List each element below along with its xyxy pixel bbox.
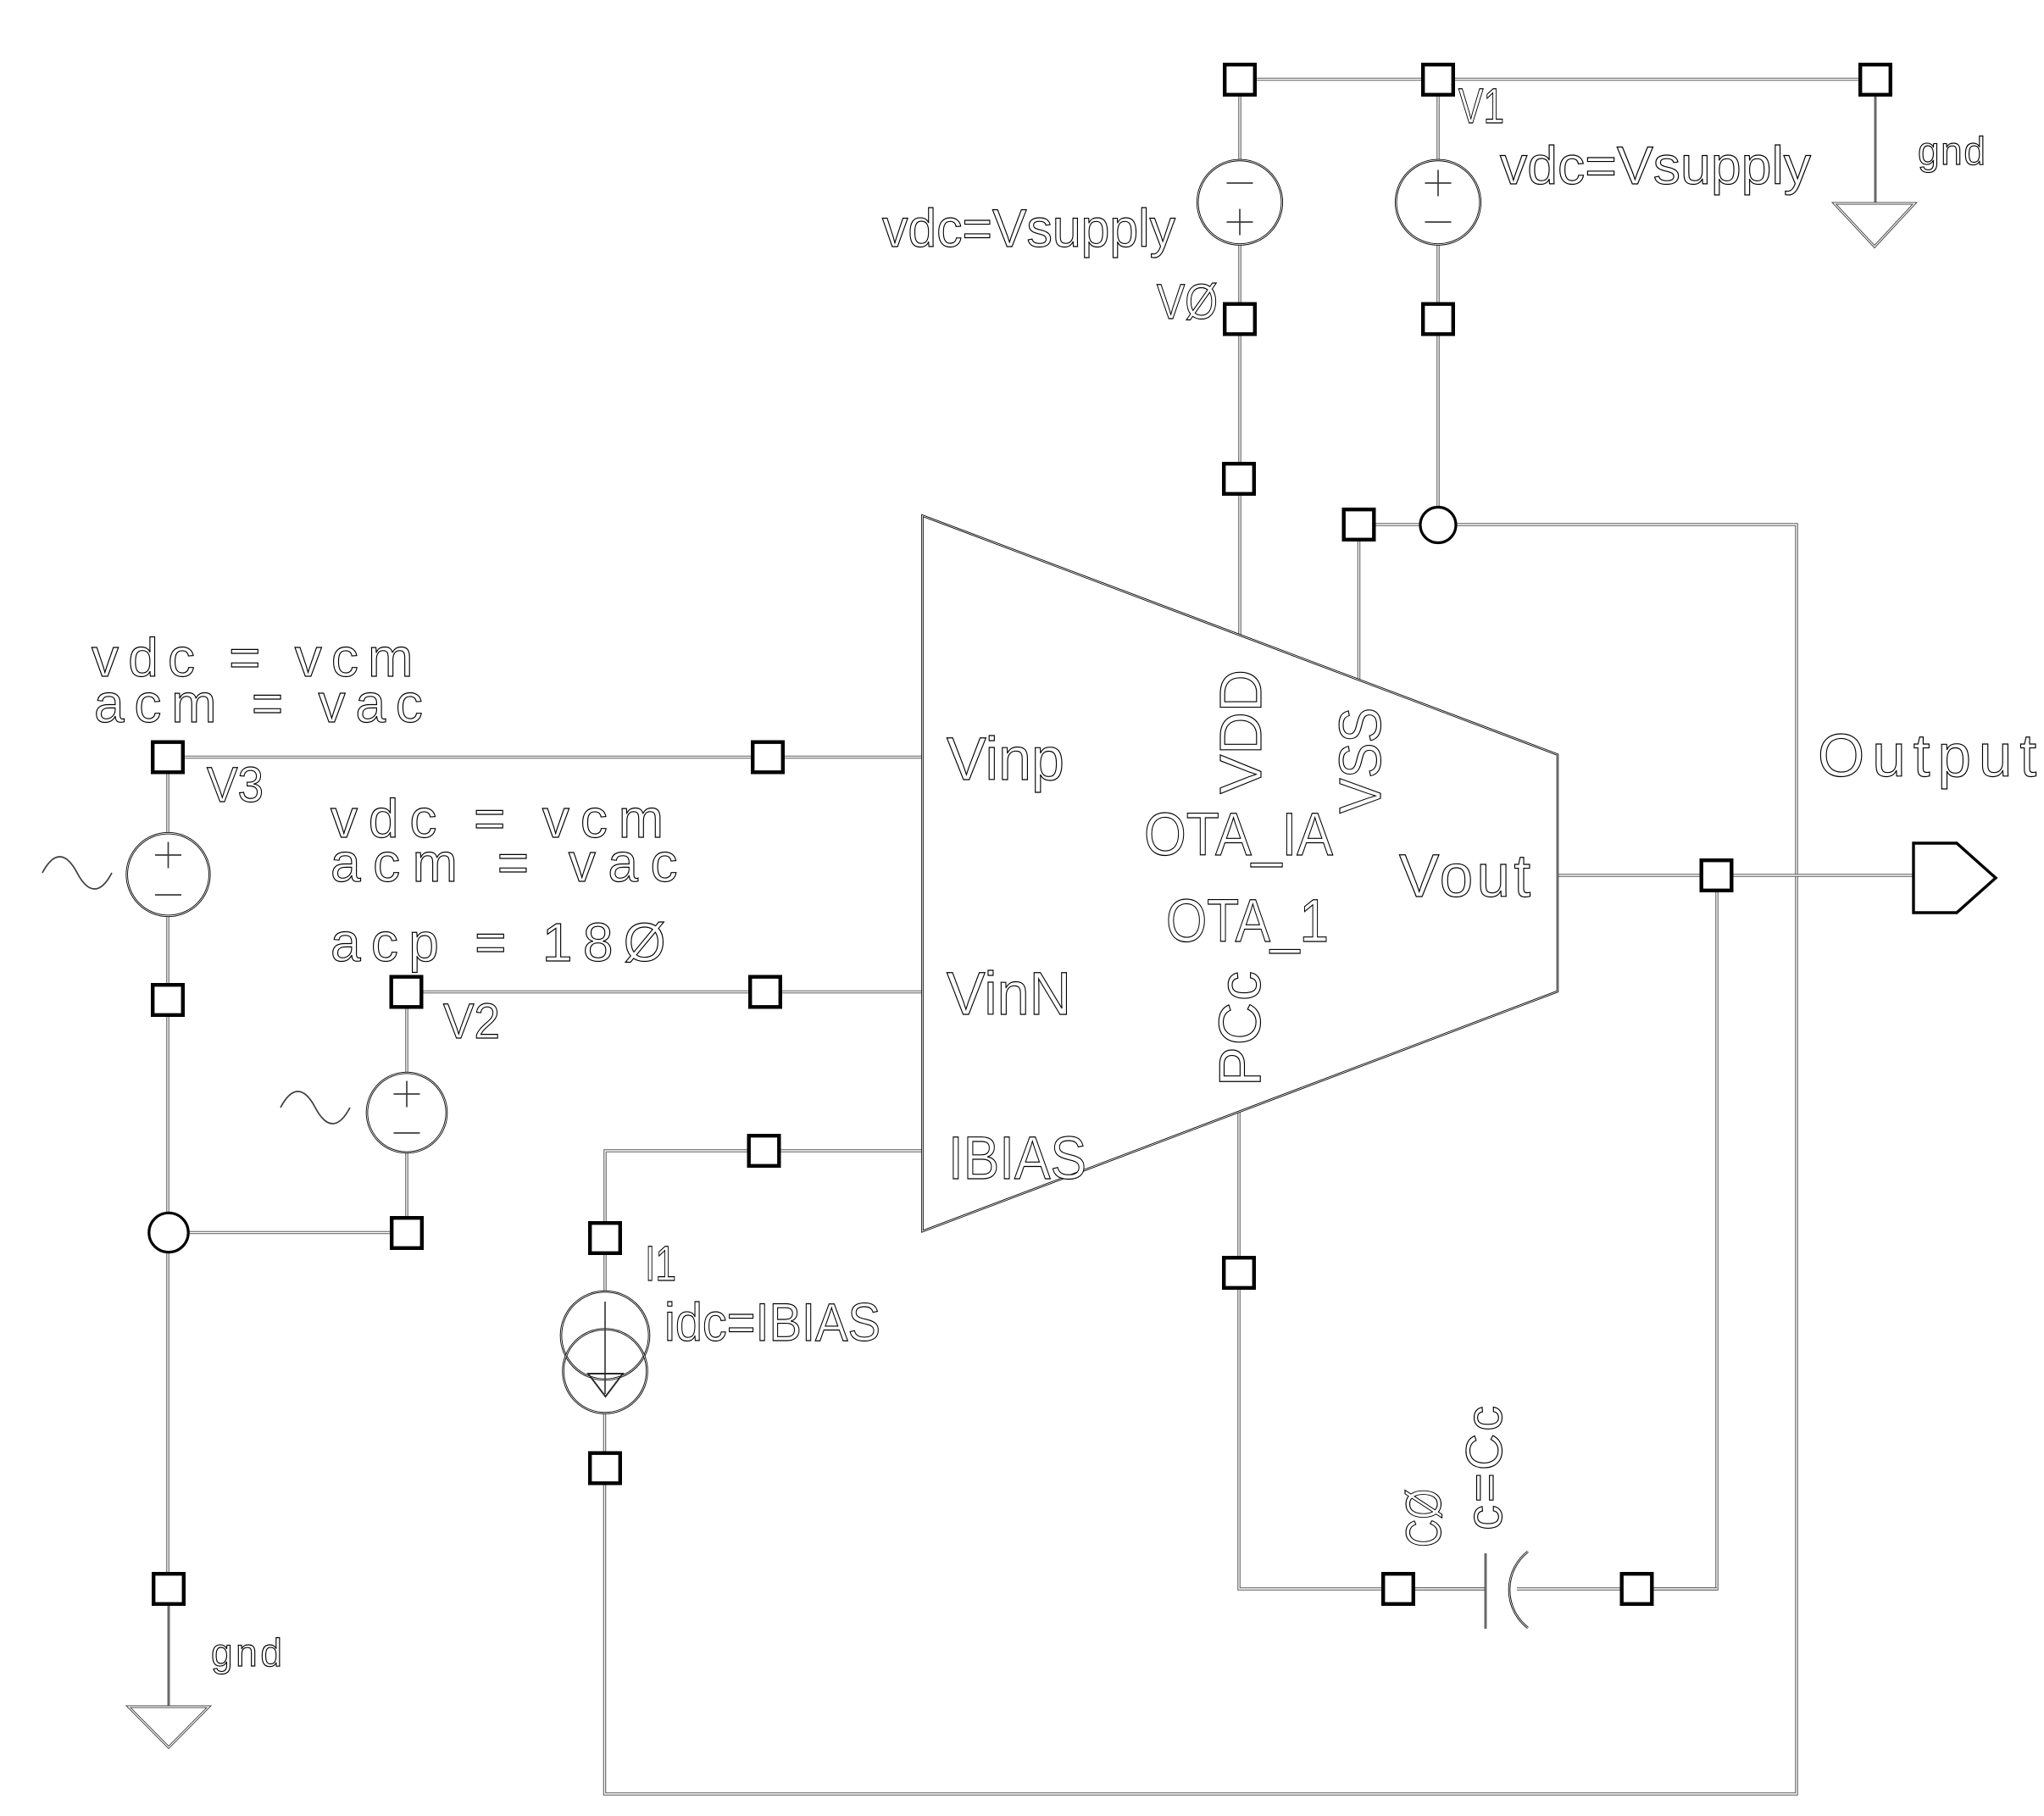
wire: top ground bus <box>1240 78 1875 81</box>
terminal square V3 top <box>153 742 183 773</box>
svg-text:acm = vac: acm = vac <box>94 673 433 734</box>
terminal square V3 bottom <box>153 985 183 1015</box>
terminal square V0 bottom <box>1225 304 1255 335</box>
wire: V2 plus stub <box>405 1009 408 1073</box>
wire: Vinp net (V3 plus to OTA Vinp) <box>168 756 923 759</box>
terminal square V2 top <box>392 977 422 1008</box>
wire: VDD net (V0 minus terminal down into OTA) <box>1238 245 1241 636</box>
svg-text:Vout: Vout <box>1399 843 1534 910</box>
wire: cap right plate to feedback <box>1517 1587 1717 1591</box>
wire: V2 minus stub <box>405 1153 408 1216</box>
capacitor C0 plates <box>1486 1552 1528 1629</box>
ground symbol bottom left <box>129 1707 209 1747</box>
svg-text:acp = 18Ø: acp = 18Ø <box>330 912 676 973</box>
terminal square I1 bottom <box>590 1453 620 1484</box>
terminal square V1 bottom <box>1423 304 1453 335</box>
wire: V3 minus down to ground junction and gnd square <box>166 917 169 1572</box>
voltage source V0 (vdc=Vsupply, minus on top) <box>1197 160 1282 245</box>
junction circle VSS node <box>1420 508 1456 543</box>
junction circle ground node <box>149 1213 188 1252</box>
terminal square on VinN wire <box>750 977 780 1008</box>
wire: gnd stub bottom left <box>168 1606 170 1707</box>
svg-text:OTA_1: OTA_1 <box>1166 888 1329 955</box>
svg-text:IBIAS: IBIAS <box>948 1125 1086 1192</box>
svg-text:V2: V2 <box>443 994 500 1049</box>
op-amp OTA_1 trapezoid body <box>923 516 1558 1232</box>
wire: VSS net loop (to OTA VSS and around to I1 bottom) <box>605 525 1797 1794</box>
svg-text:I1: I1 <box>645 1236 676 1291</box>
wire: V1 minus terminal down to VSS junction <box>1436 245 1440 525</box>
svg-text:Vinp: Vinp <box>947 726 1064 793</box>
svg-text:CØ: CØ <box>1397 1489 1452 1547</box>
svg-text:VSS: VSS <box>1327 708 1393 814</box>
terminal square V2 bottom <box>392 1218 422 1248</box>
wire: V0 positive stub <box>1238 96 1241 160</box>
terminal square gnd bottom left <box>153 1574 184 1604</box>
wire: V1 plus stub <box>1436 96 1440 160</box>
terminal square gnd top right <box>1860 64 1891 95</box>
output pin Output <box>1913 843 1996 913</box>
terminal square on IBIAS wire <box>749 1136 780 1166</box>
wire: IBIAS net (I1 top to OTA IBIAS pin) <box>605 1151 923 1291</box>
wire: V3 plus stub <box>166 775 169 833</box>
terminal square I1 top <box>590 1223 620 1253</box>
wire: VinN net (V2 plus to OTA VinN) <box>407 991 923 994</box>
svg-text:vdc=Vsupply: vdc=Vsupply <box>882 199 1175 258</box>
svg-text:V3: V3 <box>207 758 264 813</box>
wire: cap left plate to square <box>1381 1587 1486 1591</box>
svg-text:VØ: VØ <box>1157 275 1218 330</box>
wire: PCc pin stub <box>1237 1112 1241 1256</box>
wire: junction to V2 minus terminal <box>169 1231 407 1235</box>
wire: Vout net to output pin <box>1558 874 1913 877</box>
terminal square on Vinp wire <box>753 742 783 773</box>
svg-text:OTA_IA: OTA_IA <box>1144 802 1334 869</box>
svg-text:vdc=Vsupply: vdc=Vsupply <box>1500 136 1812 196</box>
terminal square cap right <box>1622 1574 1652 1604</box>
svg-text:V1: V1 <box>1458 79 1504 134</box>
sine symbol of V2 <box>280 1091 350 1124</box>
terminal square on Vout wire <box>1702 860 1732 891</box>
current source I1 (idc=IBIAS) <box>561 1291 649 1413</box>
voltage source V2 (vdc=vcm acm=vac acp=180, plus on top) <box>367 1073 447 1152</box>
svg-text:c=Cc: c=Cc <box>1456 1403 1513 1530</box>
terminal square on VDD wire <box>1224 464 1254 494</box>
sine symbol of V3 <box>42 857 112 889</box>
wire: gnd stub top right <box>1875 97 1877 203</box>
ground symbol top right <box>1834 203 1914 247</box>
voltage source V1 (vdc=Vsupply, plus on top) <box>1396 160 1480 245</box>
terminal square V1 top <box>1423 64 1453 95</box>
wire: VSS pin stub into OTA <box>1358 541 1361 680</box>
svg-text:gnd: gnd <box>1918 129 1987 173</box>
voltage source V3 (vdc=vcm acm=vac, plus on top) <box>127 833 210 916</box>
terminal square on VSS wire <box>1344 509 1375 540</box>
svg-text:gnd: gnd <box>211 1630 286 1674</box>
svg-text:VDD: VDD <box>1208 669 1274 794</box>
wire: PCc net down to cap left plate <box>1239 1290 1486 1589</box>
svg-text:Output: Output <box>1818 723 2044 790</box>
svg-text:VinN: VinN <box>947 961 1071 1028</box>
terminal square cap left <box>1383 1574 1414 1604</box>
svg-text:PCc: PCc <box>1207 969 1273 1086</box>
svg-text:idc=IBIAS: idc=IBIAS <box>664 1293 880 1352</box>
svg-text:acm = vac: acm = vac <box>330 832 690 893</box>
terminal square on PCc wire <box>1224 1258 1254 1288</box>
wire: Vout feedback drop to compensation cap <box>1637 892 1718 1589</box>
terminal square V0 top <box>1225 64 1255 95</box>
